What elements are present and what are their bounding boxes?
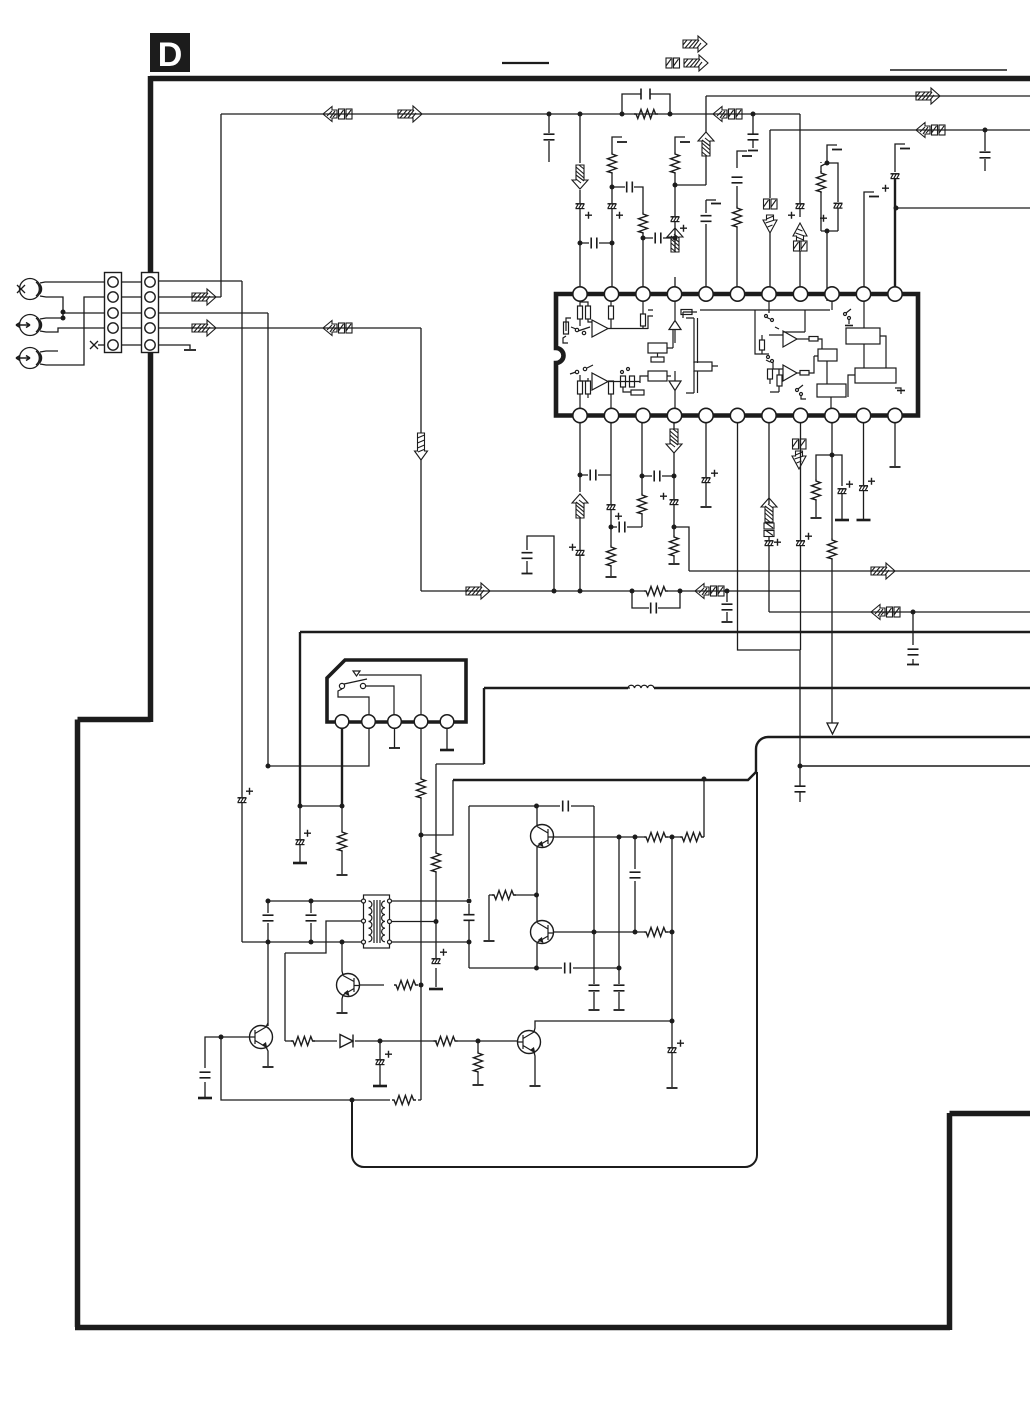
- jog x674 y527 to y571: [674, 527, 689, 571]
- arrow left00 y591: [695, 584, 724, 599]
- jack J2 RCA: [20, 315, 41, 336]
- RC pair resistor: [634, 110, 658, 119]
- wire y238 with cap between x643 x675: [643, 237, 675, 239]
- capacitor: [306, 915, 317, 921]
- Q2 base row y932: [554, 931, 672, 933]
- col x611 below IC: elec, cap, resistor, open bar: [610, 423, 612, 576]
- cap stub C at x549: [548, 114, 550, 162]
- IC internal: op-amp A1: [592, 320, 608, 337]
- polarity mark +: [882, 185, 889, 192]
- ground: [429, 988, 443, 990]
- column x643: resistor to pin: [642, 234, 644, 301]
- resistor: [434, 1037, 458, 1046]
- IC pin at x=674.5: [667, 408, 681, 422]
- junction at (580,475): [578, 473, 583, 478]
- polarity mark +: [615, 513, 622, 520]
- IC pin circles top: [573, 287, 902, 301]
- arrow right on W1: [398, 106, 422, 122]
- open terminal: [337, 1012, 348, 1014]
- resistor x674 y546: [670, 535, 679, 557]
- row3 wire to x268 corner: [158, 312, 268, 314]
- relay pin at x=421: [414, 715, 428, 729]
- column x832 cluster: stub, R parallel elec, pin: [827, 145, 837, 163]
- thick wire y688: [484, 687, 1030, 689]
- junction at (300,806): [298, 804, 303, 809]
- relay pin at x=368.5: [362, 715, 376, 729]
- open terminal: [701, 506, 712, 508]
- x672 long vertical: [671, 837, 673, 1087]
- IC internal: input switch 1: [575, 328, 578, 331]
- open terminal: [667, 1087, 678, 1089]
- RC pair on W1: cap loop: [622, 94, 670, 114]
- connector pin at (150,282): [145, 277, 155, 287]
- IC internal: box B3 top right: [846, 328, 880, 344]
- cap stub loop at x554: [527, 536, 554, 591]
- IC internal: box B2 and down-triangle: [648, 371, 667, 381]
- cap x913 on y612: [912, 612, 914, 664]
- triangle x832 at board edge: [827, 723, 838, 734]
- open terminal: [890, 466, 901, 468]
- junction at (580,243): [578, 241, 583, 246]
- resistor: [474, 1051, 483, 1073]
- wire y185 x675 to x706: [675, 184, 706, 186]
- junction at (896,208): [894, 206, 899, 211]
- IC internal: op-amp A4: [783, 365, 797, 381]
- column x770: to W2, boxes+arrow down, pin: [769, 130, 771, 301]
- x635 between y837 y932 with cap: [634, 837, 636, 932]
- transformer terminal at (389.5,942): [388, 940, 392, 944]
- column x580: arrow down, elec cap, to pin: [579, 114, 581, 301]
- open terminal: [263, 1066, 274, 1068]
- resistor row y895: [489, 895, 537, 940]
- circle: [360, 683, 365, 688]
- junction dots top area: [547, 112, 988, 246]
- column x675: stub, resistor, elec, arrow up, pin: [675, 137, 685, 152]
- capacitor: [651, 603, 657, 614]
- resistor: [392, 1096, 416, 1105]
- signal code boxes: [764, 523, 774, 537]
- electrolytic x672 y1050: [668, 1048, 677, 1053]
- capacitor: [200, 1072, 211, 1078]
- resistor: [608, 152, 617, 174]
- junction at (536.5,895): [534, 893, 539, 898]
- transistor Q2: [531, 921, 555, 944]
- x594 down from y806 to caps: [593, 806, 595, 1009]
- connector pin at (150,297): [145, 292, 155, 302]
- connector pin at (113,313): [108, 308, 118, 318]
- Q4 emitter: [266, 1047, 268, 1066]
- sub-board outline: [756, 737, 1030, 772]
- capacitor: [795, 786, 806, 792]
- cap C at x985 on y130: [984, 130, 986, 171]
- col x737 below IC down to jog y650: [738, 423, 801, 650]
- resistor: [817, 171, 826, 193]
- polarity mark +: [868, 478, 875, 485]
- electrolytic capacitor: [296, 840, 305, 845]
- electrolytic capacitor: [891, 174, 900, 179]
- Q1 base row y837: [554, 836, 680, 838]
- col x642 below IC: resistor: [641, 423, 643, 527]
- circle: [771, 319, 774, 322]
- ground: [198, 1097, 212, 1099]
- relay pin3 stub: [394, 728, 396, 748]
- junction at (635,932): [633, 930, 638, 935]
- IC internal: box B6 bottom: [817, 384, 846, 397]
- junction at (635,837): [633, 835, 638, 840]
- row1 wire right to x242: [158, 280, 242, 282]
- relay wire pin2 to left contact: [338, 689, 369, 715]
- arrow left00 row4: [323, 321, 352, 336]
- capacitor: [263, 915, 274, 921]
- x285 down to diode row: [284, 953, 286, 1041]
- junction at (675,185): [673, 183, 678, 188]
- electrolytic x580: [576, 204, 585, 209]
- signal code boxes: [764, 199, 778, 209]
- wire y187 with cap from x612 to x643: [612, 187, 643, 212]
- resistor x478 down: [477, 1041, 479, 1084]
- electrolytic capacitor: [834, 203, 843, 208]
- junction at (642,476): [640, 474, 645, 479]
- electrolytic capacitor: [671, 217, 680, 222]
- circle: [767, 356, 770, 359]
- junction at (342,806): [340, 804, 345, 809]
- wire node x63 to row3: [63, 312, 105, 318]
- ground: [440, 749, 454, 751]
- polarity mark +: [846, 481, 853, 488]
- electrolytic x842 branch: [838, 489, 847, 494]
- junction at (536.5,806): [534, 804, 539, 809]
- SEC4: [421, 423, 1030, 802]
- arrow left00 y612: [871, 605, 900, 620]
- col x769 below IC: arrow, elec, corner y612: [768, 423, 770, 612]
- polarity mark +: [585, 212, 592, 219]
- open terminal: [669, 563, 680, 565]
- polarity mark +: [805, 533, 812, 540]
- IC pin at x=863.5: [856, 287, 870, 301]
- circle: [621, 371, 624, 374]
- col x800 below IC down to jog, dot y766, cap: [799, 423, 802, 802]
- coil L1 on y688: [628, 685, 654, 688]
- Q3 emitter: [342, 995, 343, 1012]
- IC pin at x=643: [636, 408, 650, 422]
- col x895 below IC: bar: [894, 423, 896, 466]
- IC pin at x=706: [699, 408, 713, 422]
- electrolytic capacitor: [796, 204, 805, 209]
- relay pin circles: [335, 715, 454, 729]
- transistor Q1: [531, 825, 555, 848]
- resistor: [291, 1037, 315, 1046]
- Q5 emitter: [534, 1052, 535, 1085]
- svg-text:D: D: [158, 36, 183, 74]
- wire y806 from x469 to x594: [469, 805, 594, 807]
- IC internal: hook bottom right: [895, 388, 901, 394]
- jack J1 RCA: [20, 279, 41, 300]
- wire y527 with cap x611-x642: [611, 526, 642, 528]
- IC internal: op-amp A3: [783, 331, 797, 347]
- relay actuator triangle: [353, 671, 360, 676]
- thick corner x300 down: [299, 632, 301, 806]
- capacitor: [630, 872, 641, 878]
- row4 wire to x421 corner: [158, 327, 421, 329]
- arrow right row2: [192, 289, 216, 305]
- polarity mark +: [246, 788, 253, 795]
- wire y1100 resistor to x421: [352, 1099, 421, 1101]
- junction at (643,238): [641, 236, 646, 241]
- junction at (827,231): [825, 229, 830, 234]
- col x674 below IC: arrow down, elec, resistor, bar: [673, 423, 675, 563]
- IC internal: central box B4: [818, 349, 837, 361]
- cap stub C at x753: [752, 114, 754, 148]
- arrow right row4: [192, 320, 216, 336]
- electrolytic x580 y553: [576, 550, 585, 555]
- junction at (594,932): [592, 930, 597, 935]
- wire y806 x300-x342: [300, 805, 342, 807]
- wire J3 shield up to row2: [40, 297, 105, 365]
- circle: [627, 368, 630, 371]
- signal code boxes: [794, 241, 808, 251]
- resistor: [644, 587, 668, 596]
- wire y766 right from x800: [800, 765, 1030, 767]
- polarity mark +: [820, 215, 827, 222]
- open terminal: [530, 1085, 541, 1087]
- relay pin5 ground: [446, 728, 448, 749]
- transformer wires left y901: [268, 900, 361, 902]
- arrow up x675: [667, 228, 683, 252]
- thin wire y764 x436-x484: [436, 763, 484, 765]
- IC pin at x=611.5: [604, 408, 618, 422]
- IC internal: switch top right: [844, 313, 847, 316]
- connector pin at (113,297): [108, 292, 118, 302]
- cap stub x727 on y591: [726, 591, 728, 621]
- junction at (704,779): [702, 777, 707, 782]
- junction at (311,901): [309, 899, 314, 904]
- IC internal: pin2 resistor rect: [609, 306, 614, 319]
- junction at (311,942): [309, 940, 314, 945]
- capacitor: [908, 649, 919, 655]
- IC pin at x=832: [825, 287, 839, 301]
- polarity mark +: [774, 539, 781, 546]
- junction at (268,766): [266, 764, 271, 769]
- off-page arrow down: [763, 215, 777, 233]
- cap on y806: [468, 806, 470, 898]
- transformer terminal at (363.5,942): [362, 940, 366, 944]
- no-connect X row5 left: [90, 341, 98, 349]
- wire y835 x421-x453 and corner up to y780: [421, 780, 453, 835]
- Q5 collector corner to y1021: [534, 1021, 672, 1032]
- diode row y1041: [285, 1035, 517, 1086]
- resistor: [432, 851, 441, 873]
- resistor: [680, 833, 704, 842]
- transformer middle-left wire jog: [285, 921, 361, 953]
- jack J3 RCA: [20, 348, 41, 369]
- transformer terminal at (389.5,921.5): [388, 920, 392, 924]
- Q3 base row y985: [360, 984, 384, 986]
- wire y130 to right edge: [770, 129, 1030, 131]
- boxes and arrow down x799 y443: [793, 439, 807, 449]
- resistor x816 branch: [812, 479, 821, 501]
- junction at (800,766): [798, 764, 803, 769]
- resistor: [733, 206, 742, 228]
- relay pin at x=394.5: [388, 715, 402, 729]
- capacitor: [654, 471, 660, 482]
- wire y612: [769, 611, 1030, 613]
- open terminal: [606, 576, 617, 578]
- IC internal: box B1: [648, 343, 667, 353]
- column x706 pin stub with cap: [706, 199, 716, 201]
- IC pin at x=643: [636, 287, 650, 301]
- junction at (612,243): [610, 241, 615, 246]
- resistor x642 y504: [638, 493, 647, 515]
- ground: [857, 519, 871, 521]
- junction at (672,932): [670, 930, 675, 935]
- resistor: [644, 928, 668, 937]
- junction at (268,942): [266, 940, 271, 945]
- connector strip CN1 left: [105, 273, 122, 353]
- arrow up x706: [698, 132, 714, 156]
- wire J1 to strip row1: [40, 282, 105, 283]
- junction at (421,835): [419, 833, 424, 838]
- transistor Q4: [249, 1026, 273, 1049]
- arrow right y571: [871, 563, 895, 579]
- resistor: [338, 830, 347, 852]
- polarity mark +: [788, 212, 795, 219]
- electrolytic x707 y480: [702, 478, 711, 483]
- junction at (554,591): [552, 589, 557, 594]
- relay pin at x=342: [335, 715, 349, 729]
- polarity mark +: [711, 470, 718, 477]
- junction at (536.5,968): [534, 966, 539, 971]
- IC pin at x=863.5: [856, 408, 870, 422]
- open terminal: [337, 874, 348, 876]
- x342 resistor to open end: [341, 806, 343, 874]
- polarity mark +: [569, 544, 576, 551]
- junction: [434, 919, 439, 924]
- RC on y591: resistor and cap loop: [632, 591, 680, 608]
- IC internal: left inputs of A3 A4: [762, 301, 783, 354]
- wire y476 with cap x642-x674: [642, 475, 674, 477]
- transformer terminal at (389.5,901): [388, 899, 392, 903]
- relay wire pin3 to right contact: [366, 686, 394, 715]
- arrow up x769 with boxes: [761, 498, 777, 522]
- x300 elec to ground: [299, 806, 301, 862]
- ground: [373, 1085, 387, 1087]
- resistor: [639, 212, 648, 234]
- row5 wire to open bar: [158, 345, 190, 349]
- off-page arrow top-right 2 with code boxes: [666, 58, 680, 68]
- transformer wires left y942: [242, 941, 361, 943]
- capacitor: [614, 985, 625, 991]
- wire W1 corner down x221: [220, 114, 222, 297]
- IC IC1 outline: [556, 294, 918, 416]
- arrow down x580: [572, 165, 588, 189]
- connector pin at (113,345): [108, 340, 118, 350]
- resistor: [492, 891, 516, 900]
- arrow down x674: [666, 429, 682, 453]
- capacitor: [619, 522, 625, 533]
- junction at (63,318): [61, 316, 66, 321]
- col x832 below IC: dot, R/elec branches, resistor, down to triangle at board: [831, 423, 833, 723]
- off-page arrow up: [793, 223, 807, 241]
- IC pin circles bottom: [573, 408, 902, 422]
- circle: [339, 683, 344, 688]
- sheet label D: [150, 33, 190, 74]
- column x800: W1 corner down, elec, arrow up, pin: [799, 114, 801, 301]
- arrow left00 on W1: [323, 107, 352, 122]
- junction at (913,612): [911, 610, 916, 615]
- connector pin at (150,313): [145, 308, 155, 318]
- x469 down: cap, dots, corner y968: [468, 904, 470, 968]
- connector pin at (150,328): [145, 323, 155, 333]
- connector pin at (150,345): [145, 340, 155, 350]
- column x737: stub, cap, resistor, pin: [737, 151, 747, 168]
- IC pin at x=895: [888, 287, 902, 301]
- wire y96 to right edge: [706, 95, 1030, 97]
- IC pin at x=611.5: [604, 287, 618, 301]
- diode D1: [340, 1035, 353, 1048]
- junction at (985,130): [983, 128, 988, 133]
- resistor x832 y549: [828, 538, 837, 560]
- col x863 below IC: elec, bar: [863, 423, 865, 519]
- IC internal: misc links: [783, 310, 805, 332]
- electrolytic x611 y507: [607, 505, 616, 510]
- ground: [293, 862, 307, 864]
- capacitor: [565, 963, 571, 974]
- junction at (670,114): [668, 112, 673, 117]
- thick corner x484 down: [483, 688, 485, 764]
- resistor: [417, 777, 426, 799]
- relay pin4 down through resistor to dot: [420, 728, 422, 835]
- ground: [835, 519, 849, 521]
- electrolytic capacitor: [432, 959, 441, 964]
- resistor: [394, 981, 418, 990]
- off-page arrow down: [792, 451, 806, 469]
- IC internal: pin3 rect and up-triangle: [641, 314, 646, 326]
- arrow up x580 below IC: [572, 494, 588, 518]
- IC pin at x=706: [699, 287, 713, 301]
- IC pin at x=800.5: [793, 408, 807, 422]
- capacitor: [522, 553, 533, 559]
- IC internal: op-amp A2: [592, 373, 608, 390]
- IC internal: lower rects: [578, 381, 583, 394]
- electrolytic x242: [238, 798, 247, 803]
- electrolytic capacitor: [376, 1060, 385, 1065]
- resistor x611 y556: [607, 545, 616, 567]
- junction at (580,591): [578, 589, 583, 594]
- arrow left00 on y130 wire: [916, 123, 945, 138]
- Q3 collector from y942 dot: [342, 942, 343, 975]
- circle: [771, 360, 774, 363]
- x619 down from y837: [618, 837, 620, 1009]
- wire J3 to stub: [40, 351, 58, 352]
- IC pin at x=800.5: [793, 287, 807, 301]
- relay box RY1: [327, 660, 466, 722]
- long vertical x421 row4 down to arrow and y591 corner: [420, 328, 422, 591]
- arrow right on y96 wire: [916, 88, 940, 104]
- transformer terminal at (363.5,921): [362, 919, 366, 923]
- caps between transformer rows: [268, 901, 311, 942]
- junction at (674,476): [672, 474, 677, 479]
- IC pin at x=895: [888, 408, 902, 422]
- junction at (827,163): [825, 161, 830, 166]
- wire y968: [469, 967, 619, 969]
- junction at (612,187): [610, 185, 615, 190]
- capacitor: [722, 604, 733, 610]
- electrolytic capacitor: [608, 204, 617, 209]
- IC pin at x=674.5: [667, 287, 681, 301]
- open terminal: [473, 1084, 484, 1086]
- relay pin at x=447: [440, 715, 454, 729]
- off-page arrow top-right 1: [683, 36, 707, 52]
